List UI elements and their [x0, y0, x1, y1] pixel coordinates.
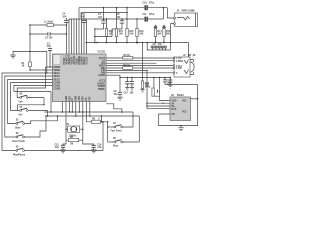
wire U1 top pin 9 [85, 19, 87, 54]
svg-text:R11: R11 [119, 31, 124, 33]
svg-text:PWM0: PWM0 [54, 67, 62, 69]
svg-text:TST: TST [90, 96, 92, 101]
wire bus2 drop to key line [101, 116, 103, 122]
svg-text:PWML: PWML [98, 89, 106, 91]
svg-text:2 RNG: 2 RNG [176, 61, 183, 63]
resistor R14 with VCC arrow [154, 25, 162, 43]
ground [130, 88, 134, 91]
resistor R13 pullup [136, 18, 144, 43]
left area [2, 21, 67, 156]
resistor R11 pullup [115, 7, 123, 43]
capacitor C16 to gnd [130, 77, 135, 95]
svg-text:COM0: COM0 [54, 83, 61, 85]
bus B' [81, 12, 127, 14]
capacitor C8 from bus B [94, 14, 124, 37]
bus 2 [48, 115, 140, 117]
wire filter rail [120, 77, 170, 79]
svg-text:R10: R10 [109, 31, 114, 33]
svg-text:SEG2: SEG2 [54, 76, 61, 78]
svg-text:COM1: COM1 [54, 86, 61, 88]
switch S3 play/pause [13, 147, 30, 157]
svg-text:C17: C17 [145, 84, 150, 86]
wire pin b4 [75, 102, 77, 117]
power jack J4 [174, 10, 198, 27]
electrolytic C17 [145, 77, 198, 101]
wire U1 right pin 4 [106, 65, 173, 67]
svg-text:10K: 10K [109, 34, 114, 36]
svg-text:XI: XI [72, 98, 74, 101]
svg-text:470u: 470u [149, 1, 155, 4]
headphone jack J2 [173, 55, 196, 77]
wire n-rail to bottom bus [14, 92, 51, 113]
top area [62, 1, 197, 57]
resistor R12 pullup [126, 19, 134, 43]
capacitor C4 on pin1 wire [62, 13, 68, 25]
right audio area [106, 42, 198, 131]
svg-text:AGND: AGND [98, 74, 105, 77]
node dot [126, 18, 128, 20]
svg-text:HP_JK: HP_JK [188, 55, 196, 57]
wire U1 left pin 5 [8, 80, 53, 124]
svg-text:27p: 27p [55, 147, 60, 149]
wire U1 left pin 2 [30, 69, 53, 71]
svg-text:Stop: Stop [113, 145, 119, 148]
svg-text:Vol-: Vol- [19, 114, 23, 116]
capacitor C15 to gnd [124, 77, 130, 95]
wire left vertical x=30 [29, 25, 31, 62]
ground [60, 150, 66, 153]
wire U1 right pin 7 [106, 72, 173, 74]
wire pin b3 [71, 102, 73, 113]
svg-text:R15: R15 [166, 31, 171, 33]
crystal X1 [65, 124, 83, 137]
wire staircase to amp area [106, 104, 122, 112]
switch S6 [19, 94, 45, 105]
svg-text:470u: 470u [149, 13, 155, 16]
svg-text:1 TIP: 1 TIP [176, 58, 182, 60]
svg-text:PWMR: PWMR [98, 86, 106, 88]
wire U1 top pin 4 to bus A [73, 19, 75, 54]
ground rail top-left [13, 51, 47, 73]
svg-text:L1 10uH: L1 10uH [44, 21, 53, 23]
node dot [103, 18, 105, 20]
svg-text:8002A: 8002A [177, 94, 184, 97]
wire drop x=142.5 [142, 43, 144, 78]
resistor network RN1 [146, 42, 170, 50]
capacitor C14 [83, 140, 102, 153]
svg-text:VSS: VSS [69, 96, 71, 101]
IC U1 (main controller) [53, 54, 107, 102]
wire U3 out pin [191, 98, 198, 100]
wire U1 left pin 7 [14, 86, 53, 92]
svg-text:VSS: VSS [79, 96, 81, 101]
wire B' drop [126, 8, 128, 19]
wire pin b0 [61, 102, 63, 113]
switch S5 stop [108, 116, 140, 148]
wire U1 top pin 2 [68, 19, 70, 54]
svg-text:SEG1: SEG1 [54, 73, 61, 75]
wire U1 top pin 3 [70, 19, 72, 54]
wire U1 left pin 4 [5, 76, 53, 137]
svg-text:10K: 10K [139, 34, 144, 36]
bus A (VDD rail) [79, 7, 167, 9]
ground [125, 88, 129, 91]
wire pin b6 (XO rail) [82, 102, 84, 141]
wire top-left rail 1 [30, 24, 66, 26]
VCC3.3 bus [86, 43, 188, 58]
capacitor C9 to gnd [114, 77, 123, 100]
svg-text:VCC33: VCC33 [86, 56, 88, 64]
svg-text:VCC33: VCC33 [98, 51, 106, 53]
wire U1 right pin 5 [106, 67, 173, 69]
pin-1 notch marker [53, 55, 60, 65]
wire jack pin2 [171, 24, 174, 51]
capacitor C13 [55, 140, 67, 153]
wire U1 top pin 5 [75, 19, 77, 54]
wire play row to gnd rail [30, 122, 103, 151]
switch S4 fast-forward [107, 112, 133, 133]
wire gnd rail for keys [107, 122, 109, 142]
svg-text:VO2: VO2 [182, 112, 187, 114]
svg-text:GND: GND [66, 95, 68, 100]
svg-text:VCC5: VCC5 [99, 81, 106, 83]
svg-text:C2 104: C2 104 [45, 37, 53, 40]
resistor R1 [22, 62, 32, 71]
U1 top pin labels [63, 54, 89, 64]
capacitor C18 to gnd [168, 77, 172, 89]
bus 1 [44, 111, 133, 113]
wires U3 input [147, 103, 170, 109]
svg-text:1M: 1M [70, 144, 73, 146]
svg-text:BYP: BYP [172, 109, 177, 111]
resistor R16 to gnd [140, 77, 149, 93]
capacitor C10 inline bus A [143, 1, 155, 10]
svg-text:10K: 10K [129, 34, 134, 36]
svg-text:C14: C14 [97, 143, 102, 146]
wire U3 bottom loop [159, 99, 198, 126]
amplifier U3 [170, 94, 191, 121]
resistor R8 1M [66, 137, 83, 146]
svg-text:IN-: IN- [172, 103, 175, 105]
svg-text:GND: GND [76, 95, 78, 100]
svg-text:VO1: VO1 [182, 101, 187, 103]
ground [91, 150, 97, 153]
svg-text:Vol+: Vol+ [19, 101, 24, 103]
svg-text:R12: R12 [129, 31, 134, 33]
capacitor C11 inline bus B [143, 13, 155, 22]
resistor R10 pullup [105, 18, 113, 43]
switch S7 [18, 104, 49, 117]
switch S1 slide [15, 115, 58, 129]
U1 bottom pin labels [66, 95, 92, 100]
wire pin b5 [78, 102, 80, 113]
svg-text:SEG3: SEG3 [54, 80, 61, 82]
svg-text:C11: C11 [143, 14, 148, 16]
ground under U3 [178, 126, 184, 131]
U1 right pin labels [97, 58, 106, 91]
svg-text:PWM1: PWM1 [54, 70, 62, 72]
wire U1 left pin 1 routed down [17, 67, 52, 98]
svg-text:PWR 3.5MM: PWR 3.5MM [182, 11, 195, 13]
RN1 pin stubs [153, 48, 166, 50]
node dot [121, 18, 123, 20]
svg-text:Slide: Slide [15, 127, 21, 129]
svg-text:27p: 27p [98, 147, 103, 149]
resistor R15 with VCC arrow [163, 25, 171, 43]
svg-text:ADKEY1: ADKEY1 [65, 54, 68, 64]
wire pin b2 [69, 102, 71, 113]
svg-text:4 SW: 4 SW [176, 67, 182, 70]
wire bus B up-join to bus A [162, 8, 164, 19]
wire U1 top pin 6 to bus B' [78, 8, 80, 54]
svg-text:XO: XO [86, 97, 88, 101]
U1 left pin labels [54, 67, 62, 91]
wire U1 right pin 3 [106, 62, 157, 64]
wire top-left rail 2 with inline capacitor C2 [30, 33, 66, 35]
svg-text:47u: 47u [114, 93, 119, 96]
svg-text:Fast Frwd: Fast Frwd [111, 130, 122, 133]
bottom area [30, 102, 139, 153]
svg-text:47K: 47K [158, 43, 163, 46]
switch S2 rear touch [13, 115, 47, 143]
wire U1 top pin 1 [65, 25, 67, 54]
bus B [69, 18, 163, 20]
svg-text:R3 1K: R3 1K [124, 55, 131, 57]
wire U1 right pin 2 with series resistor R4 [106, 60, 173, 62]
svg-text:C15: C15 [124, 93, 129, 95]
wire U1 right pin 1 with series resistor R3 [106, 57, 173, 59]
wire bus A drop to jack [167, 8, 173, 18]
wire U1 top pin 7 [80, 13, 82, 54]
svg-text:Play/Pause: Play/Pause [13, 155, 26, 157]
svg-text:1K: 1K [22, 65, 25, 67]
svg-text:SD: SD [172, 114, 176, 116]
svg-text:10K: 10K [119, 34, 124, 36]
svg-text:VDD: VDD [172, 101, 177, 103]
svg-text:COM2: COM2 [54, 89, 61, 91]
wire pin b8 [89, 102, 91, 117]
wire U1 left pin 3 [2, 73, 53, 151]
wire pin b1 (XI rail) [65, 102, 67, 141]
svg-text:KEY: KEY [83, 96, 85, 101]
capacitor C7 from bus B [94, 7, 106, 43]
svg-text:R13: R13 [139, 31, 144, 33]
wire RN1 common rail [147, 43, 170, 51]
svg-text:R14: R14 [157, 30, 162, 33]
svg-text:C10: C10 [143, 2, 148, 4]
svg-text:C13: C13 [55, 144, 60, 146]
ground symbol [10, 51, 16, 58]
capacitor C5 on pin 8 wire [80, 13, 86, 54]
wire pin b7 [85, 102, 87, 122]
svg-text:LRADC: LRADC [97, 82, 105, 85]
wire U1 right pin 6 [106, 69, 147, 71]
capacitor C3 [47, 44, 52, 68]
resistor R9 [86, 118, 107, 123]
svg-text:100u: 100u [145, 87, 151, 89]
wire U1 right pin 8 [106, 74, 120, 76]
wire U1 left pin 6 [11, 83, 53, 111]
svg-text:Rear Touch: Rear Touch [13, 141, 26, 143]
